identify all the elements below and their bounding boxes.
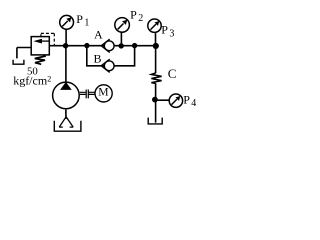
- svg-text:B: B: [94, 51, 102, 65]
- svg-text:M: M: [98, 86, 108, 99]
- svg-text:kgf/cm2: kgf/cm2: [13, 74, 51, 88]
- svg-text:C: C: [168, 66, 177, 81]
- svg-text:A: A: [94, 28, 103, 42]
